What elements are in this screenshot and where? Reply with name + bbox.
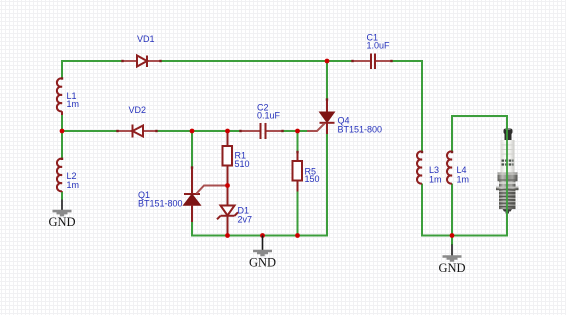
svg-text:2v7: 2v7 (238, 215, 253, 225)
svg-text:VD1: VD1 (137, 34, 155, 44)
svg-text:GND: GND (249, 256, 276, 270)
svg-text:1m: 1m (67, 99, 80, 109)
svg-text:VD2: VD2 (129, 105, 147, 115)
svg-text:0.1uF: 0.1uF (257, 111, 281, 121)
svg-text:BT151-800: BT151-800 (338, 125, 383, 135)
svg-text:1m: 1m (67, 180, 80, 190)
svg-text:L4: L4 (457, 165, 467, 175)
svg-text:1m: 1m (457, 175, 470, 185)
svg-text:GND: GND (48, 215, 75, 229)
svg-text:GND: GND (438, 261, 465, 275)
svg-text:L3: L3 (429, 165, 439, 175)
svg-text:150: 150 (305, 174, 320, 184)
svg-text:BT151-800: BT151-800 (138, 198, 183, 208)
svg-text:510: 510 (235, 159, 250, 169)
svg-text:1m: 1m (429, 175, 442, 185)
svg-text:1.0uF: 1.0uF (367, 41, 391, 51)
